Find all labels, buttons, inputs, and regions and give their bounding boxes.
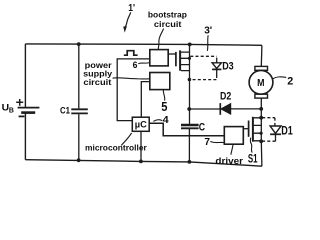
wire dashed D1 bottom link bbox=[262, 139, 276, 141]
wire D3 top lead bbox=[216, 58, 218, 63]
transistor high-side FET gate bar bbox=[175, 52, 177, 66]
diode D2 bbox=[189, 103, 261, 115]
svg-text:D1: D1 bbox=[281, 124, 293, 138]
svg-text:M: M bbox=[257, 78, 264, 89]
svg-text:D3: D3 bbox=[222, 61, 234, 73]
label UB bbox=[2, 103, 15, 115]
wire driver to S1 gate bbox=[243, 128, 248, 130]
transistor S1 gate bar bbox=[248, 121, 250, 137]
svg-text:3': 3' bbox=[204, 25, 212, 37]
leader 6 to box bbox=[138, 63, 149, 64]
wire dashed D3 cathode link bbox=[190, 75, 217, 80]
wire dashed D1 top link bbox=[262, 118, 275, 126]
svg-text:2: 2 bbox=[287, 75, 293, 87]
leader 7 to driver box bbox=[210, 141, 224, 142]
wire uC bottom to ground rail bbox=[140, 131, 142, 161]
leader power supply to box 5 bbox=[113, 78, 150, 79]
svg-text:1': 1' bbox=[128, 2, 135, 14]
wire uC top to power supply box 5 bbox=[141, 82, 150, 118]
capacitor C bbox=[181, 125, 199, 128]
leader 3' bbox=[206, 35, 209, 51]
svg-text:C1: C1 bbox=[60, 105, 70, 115]
transistor S1 channel bar bbox=[252, 117, 254, 142]
wire capacitor C to ground bbox=[188, 129, 190, 162]
leader driver to box bbox=[231, 144, 233, 154]
svg-text:D2: D2 bbox=[220, 90, 231, 102]
node C1 bottom junction bbox=[77, 158, 81, 162]
node S1 source junction bbox=[259, 139, 263, 143]
leader 5 bbox=[163, 90, 164, 101]
svg-text:7: 7 bbox=[204, 137, 210, 148]
microcontroller box uC bbox=[132, 117, 149, 131]
svg-text:S1: S1 bbox=[248, 152, 258, 166]
svg-text:µC: µC bbox=[135, 120, 147, 131]
node FET drain on rail bbox=[188, 43, 192, 47]
svg-text:bootstrap: bootstrap bbox=[148, 9, 187, 19]
diode D3 bbox=[212, 63, 221, 75]
transistor high-side FET channel bar bbox=[179, 50, 181, 70]
node S1 bulk tie bbox=[260, 132, 263, 135]
wire box 6 to transistor gate bbox=[168, 53, 176, 55]
svg-text:B: B bbox=[9, 106, 15, 115]
svg-text:5: 5 bbox=[161, 99, 167, 114]
diode D1 bbox=[270, 126, 281, 139]
capacitor C1 bbox=[71, 44, 88, 160]
leader 2 bbox=[273, 77, 286, 79]
bootstrap circuit box 6 bbox=[150, 50, 168, 66]
wire uC right to driver box 7 bbox=[149, 123, 224, 136]
transistor S1 leads bbox=[254, 118, 261, 141]
svg-text:4: 4 bbox=[163, 115, 169, 126]
wire left battery branch bbox=[24, 44, 26, 160]
node motor D2 junction bbox=[259, 107, 263, 111]
leader S1 to gate bbox=[250, 138, 252, 153]
arrow 1' bbox=[123, 12, 131, 32]
leader bootstrap circuit to box 6 bbox=[158, 29, 163, 50]
svg-text:circuit: circuit bbox=[83, 78, 111, 87]
wire top supply rail bbox=[25, 44, 262, 45]
label power supply circuit bbox=[83, 61, 113, 87]
leader 4 to wire bbox=[153, 120, 162, 122]
motor M 2 bbox=[249, 66, 273, 98]
node uC ground junction bbox=[139, 160, 143, 164]
node dashed D3 junction bbox=[188, 78, 192, 82]
svg-text:C: C bbox=[199, 121, 205, 133]
svg-text:6: 6 bbox=[133, 60, 138, 71]
svg-text:driver: driver bbox=[215, 156, 243, 166]
node capacitor C ground junction bbox=[188, 160, 192, 164]
label bootstrap circuit bbox=[148, 9, 187, 29]
power supply box 5 bbox=[150, 73, 170, 90]
driver box 7 bbox=[224, 127, 243, 145]
node C1 top junction bbox=[77, 42, 81, 46]
node D2 left junction bbox=[187, 107, 191, 111]
node FET bulk tie bbox=[188, 57, 191, 60]
wire bottom ground rail bbox=[25, 160, 262, 167]
wire dashed D3 anode link bbox=[190, 55, 216, 57]
node S1 drain junction bbox=[259, 116, 263, 120]
wire FET drain-source column bbox=[189, 44, 191, 124]
wire motor to S1 column bbox=[260, 98, 263, 166]
svg-text:microcontroller: microcontroller bbox=[85, 143, 147, 152]
wire uC to bootstrap box (PWM line) bbox=[117, 59, 150, 121]
PWM pulse symbol bbox=[124, 51, 138, 56]
transistor high-side FET leads bbox=[181, 52, 190, 71]
wire motor feed bbox=[260, 45, 263, 66]
svg-text:circuit: circuit bbox=[154, 19, 182, 29]
battery UB bbox=[16, 99, 39, 116]
leader microcontroller to uC box bbox=[121, 133, 131, 146]
svg-text:supply: supply bbox=[83, 69, 113, 78]
